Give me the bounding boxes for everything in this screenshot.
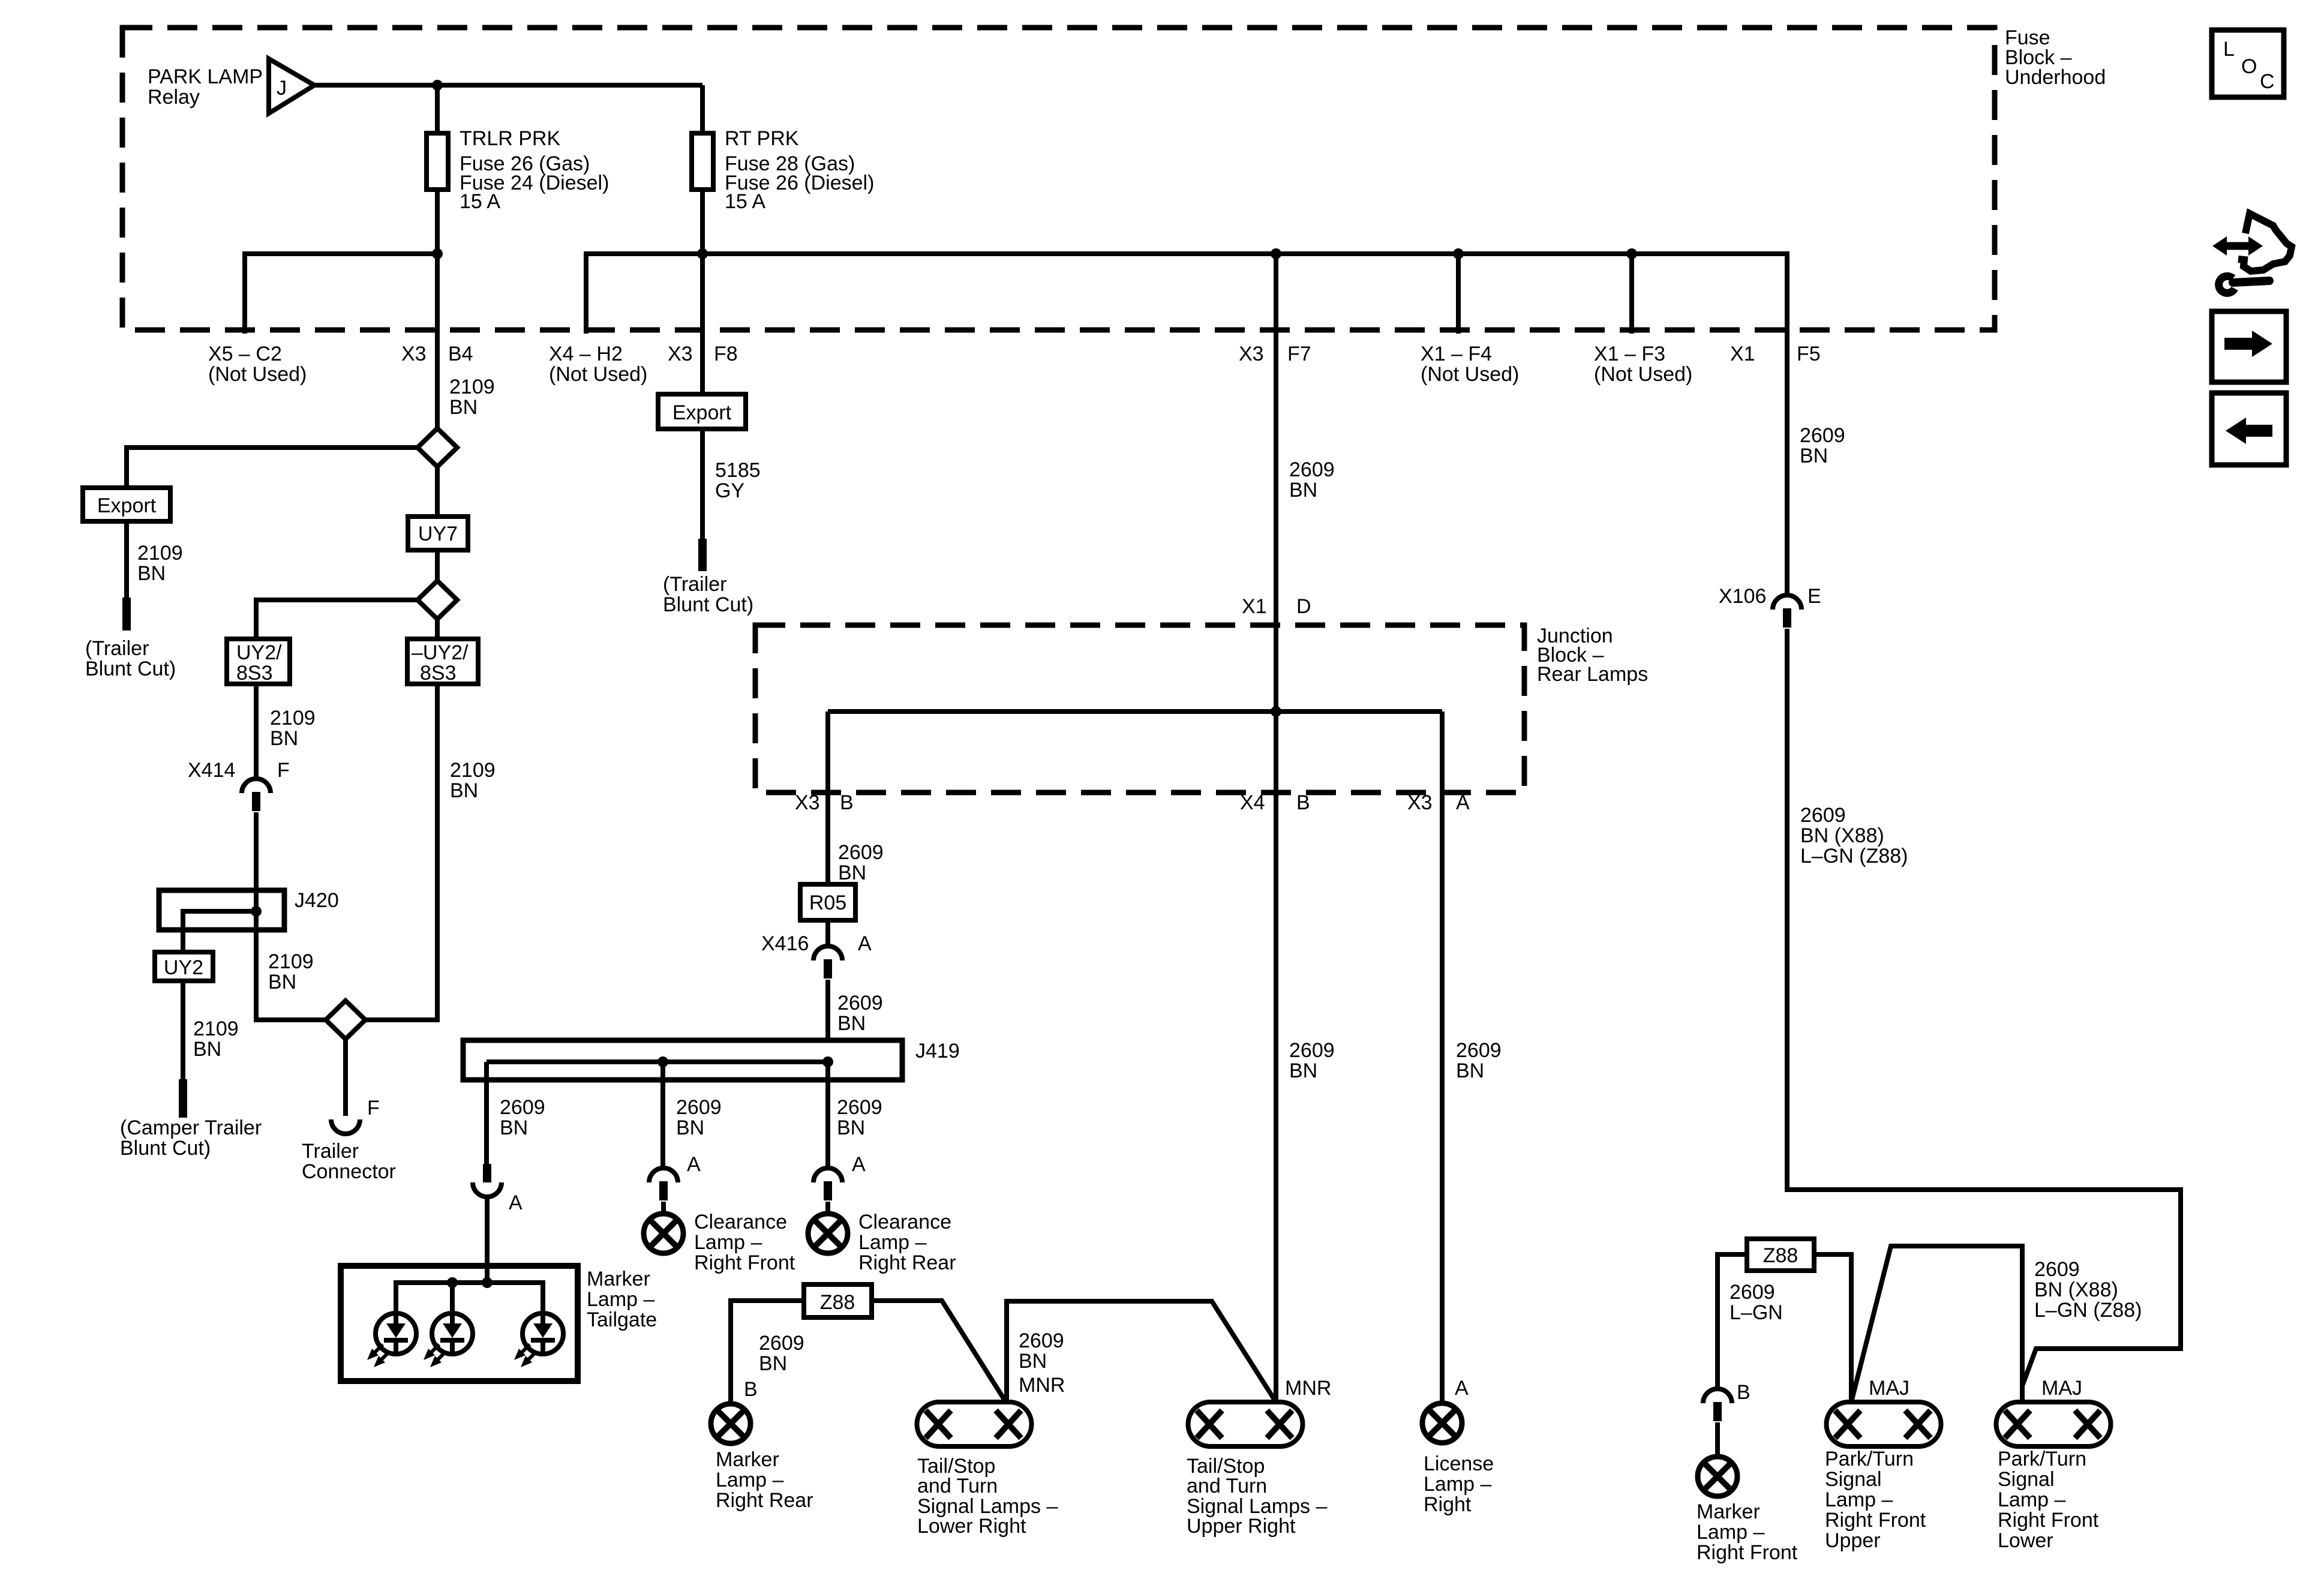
svg-text:A: A — [858, 932, 872, 955]
label license lamp right — [1424, 1452, 1494, 1516]
junction block label — [1537, 625, 1648, 686]
splice pack J419 — [463, 1040, 902, 1080]
wire: drop to RT PRK fuse — [700, 85, 705, 133]
svg-text:E: E — [1807, 585, 1821, 608]
svg-text:A: A — [1455, 1377, 1469, 1400]
svg-text:B: B — [1737, 1381, 1750, 1404]
svg-text:Lamp –: Lamp – — [1424, 1473, 1491, 1496]
svg-text:X416: X416 — [761, 932, 809, 955]
wire: Z88 to park/turn upper lamp — [1814, 1254, 1851, 1402]
svg-text:Lamp –: Lamp – — [1697, 1521, 1764, 1544]
splice S3 diamond — [326, 1001, 365, 1039]
svg-text:Park/Turn: Park/Turn — [1825, 1448, 1914, 1470]
svg-text:–UY2/: –UY2/ — [412, 641, 469, 664]
svg-text:F: F — [277, 759, 290, 782]
svg-text:Lamp –: Lamp – — [694, 1231, 762, 1254]
wire: X106 to park/turn lamps — [1787, 629, 2181, 1402]
svg-text:X3: X3 — [401, 343, 427, 365]
wire label 2609 BN (X3-A) — [1456, 1039, 1502, 1082]
svg-text:TRLR PRK: TRLR PRK — [460, 127, 560, 150]
wire: TRLR PRK fuse to bus — [435, 190, 440, 254]
svg-text:BN: BN — [1289, 1059, 1317, 1082]
svg-text:Upper Right: Upper Right — [1187, 1515, 1296, 1538]
svg-text:X3: X3 — [668, 343, 693, 365]
svg-text:2609: 2609 — [1019, 1329, 1064, 1352]
wire label 2109 BN — [193, 1017, 239, 1061]
splice Z88 (front) — [1747, 1239, 1814, 1271]
svg-text:(Not Used): (Not Used) — [1421, 363, 1519, 386]
X106 E labels — [1719, 585, 1821, 608]
blunt cut bar (trailer) — [698, 539, 707, 571]
svg-text:15 A: 15 A — [460, 190, 500, 213]
wire: splice S1 to UY7 — [435, 467, 440, 517]
wire: X414 to J420 — [254, 812, 259, 890]
wire: X1-F4 stub — [1456, 254, 1461, 334]
marker lamp - tailgate box — [341, 1266, 578, 1381]
wire label 5185 GY — [715, 459, 761, 502]
svg-text:Park/Turn: Park/Turn — [1998, 1448, 2086, 1470]
splice pack J420 — [159, 890, 284, 930]
svg-text:and Turn: and Turn — [917, 1475, 998, 1497]
LOC icon — [2212, 30, 2284, 97]
svg-text:RT PRK: RT PRK — [725, 127, 799, 150]
svg-text:BN: BN — [193, 1038, 221, 1061]
vehicle service icon — [2212, 214, 2292, 293]
wire: RT PRK output bus with X4-H2 stub and F5 drop — [586, 254, 1787, 595]
pin label X1 - F4 (Not Used) — [1421, 343, 1519, 386]
svg-text:L–GN (Z88): L–GN (Z88) — [2034, 1299, 2142, 1322]
svg-text:UY7: UY7 — [418, 523, 458, 545]
wire: F8 drop to Export — [700, 254, 705, 394]
svg-text:BN (X88): BN (X88) — [1800, 824, 1884, 847]
svg-text:F8: F8 — [714, 343, 738, 365]
wire: B4 drop to splice — [435, 254, 440, 428]
svg-text:License: License — [1424, 1452, 1494, 1475]
pin label X3 B — [795, 791, 854, 814]
svg-text:Lower: Lower — [1998, 1529, 2053, 1552]
park/turn signal lamp - right front upper — [1827, 1402, 1941, 1446]
pin label X4 B — [1240, 791, 1310, 814]
splice Z88 (rear) — [804, 1284, 872, 1317]
svg-text:BN: BN — [500, 1116, 528, 1139]
svg-text:2609: 2609 — [1800, 424, 1845, 447]
svg-text:J419: J419 — [915, 1040, 960, 1062]
svg-text:MAJ: MAJ — [1869, 1377, 1909, 1400]
Export box (left) — [83, 488, 170, 521]
svg-text:BN: BN — [268, 971, 296, 993]
Export box (right) — [658, 394, 746, 429]
wire label 2609 BN(X88) L-GN(Z88) — [2034, 1258, 2142, 1322]
svg-text:2109: 2109 — [449, 376, 495, 398]
wire label 2609 BN (X4-B) — [1289, 1039, 1335, 1082]
svg-text:2609: 2609 — [1456, 1039, 1502, 1062]
fuse block label — [2005, 26, 2106, 89]
svg-text:B: B — [744, 1378, 758, 1401]
wire: to clearance lamp right front — [661, 1202, 666, 1214]
wire: UY7 to splice S2 — [435, 550, 440, 581]
svg-text:Clearance: Clearance — [858, 1211, 951, 1233]
svg-text:Blunt Cut): Blunt Cut) — [85, 658, 176, 680]
wire: MAJ jumper between park/turn lamps — [1851, 1246, 2022, 1402]
svg-text:Trailer: Trailer — [302, 1140, 359, 1163]
park lamp relay label — [148, 65, 263, 109]
svg-text:O: O — [2241, 55, 2257, 78]
fuse TRLR PRK — [427, 133, 448, 190]
svg-text:Marker: Marker — [587, 1268, 650, 1290]
svg-text:(Camper Trailer: (Camper Trailer — [120, 1116, 262, 1139]
wire label 2609 BN — [759, 1332, 804, 1375]
svg-text:2609: 2609 — [837, 992, 883, 1014]
svg-text:X1 – F3: X1 – F3 — [1594, 343, 1665, 365]
wire: X416 to J419 — [825, 980, 830, 1040]
svg-text:BN: BN — [1456, 1059, 1484, 1082]
TRLR PRK fuse label — [460, 127, 609, 213]
wire: J419 right output — [825, 1062, 830, 1168]
tailgate LED 1 — [367, 1313, 416, 1367]
wire label 2609 BN — [838, 841, 884, 884]
svg-text:F: F — [367, 1097, 380, 1119]
marker lamp - right rear bulb — [711, 1404, 750, 1443]
pin label X3 A — [1407, 791, 1470, 814]
wire: J419 internal bus — [487, 1059, 828, 1064]
-UY2/8S3 text — [412, 641, 469, 685]
clearance lamp - right front bulb — [644, 1214, 683, 1253]
label trailer connector — [302, 1140, 396, 1183]
wire: connector to tailgate lamp — [485, 1197, 490, 1283]
-UY2/8S3 option box — [407, 639, 478, 684]
svg-text:BN (X88): BN (X88) — [2034, 1278, 2118, 1301]
svg-text:X106: X106 — [1719, 585, 1766, 608]
label park/turn upper — [1825, 1448, 1926, 1552]
wire: Z88 to marker lamp right rear — [731, 1301, 804, 1404]
svg-text:2109: 2109 — [137, 542, 183, 565]
svg-text:(Trailer: (Trailer — [85, 637, 149, 660]
wire: J419 middle output — [660, 1062, 665, 1168]
svg-text:BN: BN — [449, 396, 478, 419]
label marker lamp right rear — [716, 1448, 813, 1512]
svg-text:Connector: Connector — [302, 1160, 396, 1183]
svg-text:X1 – F4: X1 – F4 — [1421, 343, 1492, 365]
wire: UY2/8S3 to X414 — [254, 684, 259, 779]
junction dot — [482, 1277, 493, 1288]
svg-text:PARK LAMP: PARK LAMP — [148, 65, 263, 88]
RT PRK fuse label — [725, 127, 874, 213]
fuse RT PRK — [692, 133, 713, 190]
label tail/stop lower right — [917, 1455, 1058, 1538]
svg-text:2109: 2109 — [193, 1017, 239, 1040]
UY2 option box — [155, 952, 213, 981]
label trailer blunt cut — [663, 573, 753, 616]
UY7 option box — [408, 517, 468, 550]
svg-text:2609: 2609 — [500, 1096, 545, 1119]
svg-text:BN: BN — [837, 1012, 866, 1035]
svg-text:BN: BN — [759, 1352, 787, 1375]
svg-text:2609: 2609 — [838, 841, 884, 864]
svg-text:Lamp –: Lamp – — [587, 1288, 654, 1311]
svg-text:Z88: Z88 — [1763, 1244, 1798, 1267]
pin label X5 - C2 (Not Used) — [208, 343, 307, 386]
svg-text:C: C — [2260, 70, 2275, 93]
svg-text:Rear Lamps: Rear Lamps — [1537, 663, 1648, 686]
wire: splice S2 to UY2/8S3 box — [256, 600, 418, 639]
svg-text:X5 – C2: X5 – C2 — [208, 343, 282, 365]
svg-text:Lamp –: Lamp – — [1998, 1488, 2065, 1511]
blunt cut bar (camper trailer) — [179, 1079, 187, 1118]
svg-text:A: A — [1456, 791, 1470, 814]
svg-text:Right Front: Right Front — [1825, 1509, 1926, 1532]
svg-text:X414: X414 — [188, 759, 235, 782]
pin label X3 F8 — [668, 343, 738, 365]
junction dot — [1271, 248, 1281, 259]
junction dot — [1453, 248, 1464, 259]
svg-text:B: B — [840, 791, 854, 814]
park/turn signal lamp - right front lower — [1996, 1402, 2111, 1446]
clearance lamp - right rear bulb — [808, 1214, 848, 1253]
svg-text:2609: 2609 — [1730, 1281, 1775, 1304]
junction dot — [1271, 706, 1281, 717]
wire: below right Export — [700, 429, 705, 539]
svg-text:BN: BN — [450, 779, 478, 802]
svg-text:2609: 2609 — [1289, 1039, 1335, 1062]
option box R05 — [800, 884, 855, 920]
wire: below UY2 — [181, 981, 185, 1079]
label tail/stop upper right — [1187, 1455, 1327, 1538]
svg-text:Lower Right: Lower Right — [917, 1515, 1026, 1538]
svg-text:2109: 2109 — [450, 759, 496, 782]
svg-text:Blunt Cut): Blunt Cut) — [120, 1137, 211, 1160]
wire: Z88 to tail lamp lower right — [872, 1301, 1007, 1403]
svg-text:2609: 2609 — [1289, 458, 1335, 481]
wire label 2109 BN — [450, 759, 496, 802]
svg-text:and Turn: and Turn — [1187, 1475, 1267, 1497]
wire: TRLR PRK output to X5-C2 stub — [245, 254, 437, 334]
UY2/8S3 option box — [227, 639, 290, 684]
wire label 2609 BN — [676, 1096, 722, 1139]
UY2/8S3 text — [236, 641, 282, 685]
pin label X1 F5 — [1730, 343, 1821, 365]
svg-text:X4 – H2: X4 – H2 — [549, 343, 623, 365]
wire: splice S1 to left Export — [127, 448, 418, 488]
wire: drop to TRLR PRK fuse — [435, 85, 440, 133]
junction block - rear lamps dashed outline — [755, 625, 1524, 792]
wire: X3-B leg to R05 — [825, 712, 830, 884]
wire: junction block internal bus — [828, 709, 1442, 714]
svg-text:Right Front: Right Front — [1697, 1541, 1798, 1564]
marker lamp - right front bulb — [1698, 1457, 1737, 1496]
svg-text:A: A — [852, 1153, 866, 1176]
svg-text:A: A — [687, 1153, 701, 1176]
svg-text:Right Front: Right Front — [1998, 1509, 2099, 1532]
junction dot — [447, 1277, 458, 1288]
blunt cut bar (trailer) — [122, 598, 131, 631]
svg-text:Right Rear: Right Rear — [716, 1489, 813, 1512]
wire: splice S3 to trailer connector — [343, 1040, 348, 1116]
label marker lamp tailgate — [587, 1268, 657, 1331]
svg-text:Right Front: Right Front — [694, 1251, 795, 1274]
wire label 2109 BN — [137, 542, 183, 585]
svg-text:L–GN: L–GN — [1730, 1301, 1783, 1324]
svg-text:Lamp –: Lamp – — [716, 1469, 783, 1491]
svg-text:Right Rear: Right Rear — [858, 1251, 956, 1274]
svg-text:X4: X4 — [1240, 791, 1265, 814]
connector X416 pin A — [813, 946, 842, 978]
pin label X3 F7 — [1239, 343, 1311, 365]
svg-text:BN: BN — [1019, 1350, 1047, 1373]
pin label X1 D — [1242, 595, 1311, 618]
svg-text:D: D — [1296, 595, 1311, 618]
clearance lamp right front connector pin A — [649, 1168, 678, 1200]
wire: X4-B leg to upper tail lamp — [1274, 712, 1278, 1402]
svg-text:B4: B4 — [448, 343, 473, 365]
label clearance lamp right front — [694, 1211, 795, 1274]
svg-text:2609: 2609 — [759, 1332, 804, 1355]
wire label 2109 BN (circuit B4) — [449, 376, 495, 419]
tailgate harness connector pin A — [473, 1164, 502, 1197]
pin label X3 B4 — [401, 343, 473, 365]
wire: splice S2 to -UY2/8S3 box — [435, 619, 440, 639]
trailer connector arc F — [331, 1119, 360, 1134]
svg-text:Z88: Z88 — [820, 1291, 855, 1314]
wire: F7 drop to junction block — [1274, 254, 1278, 712]
svg-text:X1: X1 — [1730, 343, 1755, 365]
svg-text:Export: Export — [672, 401, 732, 424]
tail/stop and turn signal lamps - lower right — [917, 1402, 1032, 1446]
wire: J419 left output — [484, 1062, 489, 1164]
svg-text:F5: F5 — [1797, 343, 1821, 365]
svg-text:BN: BN — [270, 727, 298, 750]
right arrow icon — [2212, 311, 2286, 382]
wire: J420 internal branch to UY2 — [183, 911, 256, 952]
svg-text:Blunt Cut): Blunt Cut) — [663, 593, 753, 616]
svg-text:Marker: Marker — [716, 1448, 779, 1471]
tailgate LED 2 — [424, 1313, 473, 1367]
junction dot — [822, 1056, 833, 1067]
wire: middle LED drop — [450, 1283, 455, 1313]
pin label X4 - H2 (Not Used) — [549, 343, 647, 386]
svg-text:8S3: 8S3 — [420, 662, 457, 685]
svg-text:2609: 2609 — [1800, 804, 1846, 827]
wire label 2609 BN(X88) L-GN(Z88) — [1800, 804, 1908, 867]
label camper trailer blunt cut — [120, 1116, 262, 1160]
marker lamp right front connector pin B — [1703, 1389, 1732, 1421]
wire: below left Export — [124, 521, 129, 598]
svg-text:A: A — [509, 1191, 523, 1214]
svg-text:L–GN (Z88): L–GN (Z88) — [1800, 845, 1908, 867]
junction dot — [432, 248, 443, 259]
svg-text:(Not Used): (Not Used) — [1594, 363, 1692, 386]
svg-text:2609: 2609 — [676, 1096, 722, 1119]
svg-text:(Not Used): (Not Used) — [208, 363, 307, 386]
wire label 2609 L-GN — [1730, 1281, 1783, 1324]
connector X414 pin F — [242, 779, 271, 811]
svg-text:2609: 2609 — [2034, 1258, 2080, 1281]
svg-text:BN: BN — [1800, 445, 1828, 467]
X416 A labels — [761, 932, 872, 955]
label marker lamp right front — [1697, 1500, 1798, 1564]
svg-text:GY: GY — [715, 479, 744, 502]
svg-text:(Not Used): (Not Used) — [549, 363, 647, 386]
wire: splice S3 to -UY2/8S3 — [365, 684, 437, 1020]
wire: RT PRK fuse to bus — [700, 190, 705, 254]
svg-text:UY2: UY2 — [164, 956, 203, 979]
wire label 2609 BN — [837, 1096, 882, 1139]
svg-text:X1: X1 — [1242, 595, 1267, 618]
junction dot — [1626, 248, 1637, 259]
park lamp relay triangle J — [269, 59, 314, 113]
svg-text:BN: BN — [1289, 479, 1317, 502]
wire label 2609 BN — [1019, 1329, 1064, 1373]
svg-text:Right: Right — [1424, 1493, 1472, 1516]
svg-text:Clearance: Clearance — [694, 1211, 787, 1233]
wire label 2109 BN — [268, 950, 314, 993]
svg-text:MNR: MNR — [1019, 1374, 1065, 1397]
svg-text:2609: 2609 — [837, 1096, 882, 1119]
svg-text:F7: F7 — [1287, 343, 1311, 365]
label park/turn lower — [1998, 1448, 2099, 1552]
wire: relay output across fuse block — [314, 83, 702, 88]
label trailer blunt cut — [85, 637, 176, 680]
svg-text:L: L — [2223, 38, 2235, 61]
pin label X1 - F3 (Not Used) — [1594, 343, 1692, 386]
svg-text:Export: Export — [97, 494, 157, 517]
license lamp - right bulb — [1422, 1403, 1462, 1443]
connector X106 pin E — [1773, 595, 1801, 628]
svg-text:MNR: MNR — [1285, 1377, 1331, 1400]
wire: connector to marker lamp right front — [1715, 1422, 1720, 1456]
junction dot — [657, 1056, 668, 1067]
wire: R05 to X416 — [825, 920, 830, 946]
svg-text:UY2/: UY2/ — [236, 641, 282, 664]
splice S2 diamond — [418, 581, 457, 619]
junction dot — [251, 906, 262, 917]
svg-text:J420: J420 — [295, 889, 339, 912]
junction dot — [697, 248, 708, 259]
svg-text:Relay: Relay — [148, 86, 200, 109]
wire label 2609 BN (F5) — [1800, 424, 1845, 467]
svg-text:BN: BN — [137, 562, 166, 585]
svg-text:Lamp –: Lamp – — [1825, 1488, 1893, 1511]
junction dot — [432, 80, 443, 91]
svg-text:BN: BN — [838, 861, 866, 884]
wire label 2609 BN — [500, 1096, 545, 1139]
wire: tailgate lamp internal bus — [396, 1283, 543, 1313]
wire: X3-A leg to license lamp — [1440, 712, 1445, 1403]
svg-text:Marker: Marker — [1697, 1500, 1760, 1523]
wire: through J420 — [254, 890, 259, 930]
splice S1 diamond — [418, 428, 457, 467]
clearance lamp right rear connector pin A — [813, 1168, 842, 1200]
svg-text:Upper: Upper — [1825, 1529, 1881, 1552]
wire: J420 to splice S3 — [256, 930, 326, 1020]
svg-text:Signal: Signal — [1998, 1468, 2055, 1491]
svg-text:R05: R05 — [809, 891, 846, 914]
wire: X1-F3 stub — [1629, 254, 1634, 334]
svg-text:2109: 2109 — [268, 950, 314, 973]
fuse block - underhood dashed outline — [122, 28, 1995, 330]
svg-text:X3: X3 — [795, 791, 820, 814]
svg-text:X3: X3 — [1239, 343, 1264, 365]
svg-text:Signal: Signal — [1825, 1468, 1882, 1491]
svg-text:8S3: 8S3 — [236, 662, 273, 685]
svg-text:MAJ: MAJ — [2041, 1377, 2082, 1400]
svg-text:BN: BN — [837, 1116, 865, 1139]
wire: to clearance lamp right rear — [825, 1202, 830, 1214]
wire label 2609 BN — [837, 992, 883, 1035]
svg-text:Tailgate: Tailgate — [587, 1308, 657, 1331]
svg-text:Lamp –: Lamp – — [858, 1231, 926, 1254]
svg-text:B: B — [1296, 791, 1310, 814]
svg-text:(Trailer: (Trailer — [663, 573, 726, 596]
